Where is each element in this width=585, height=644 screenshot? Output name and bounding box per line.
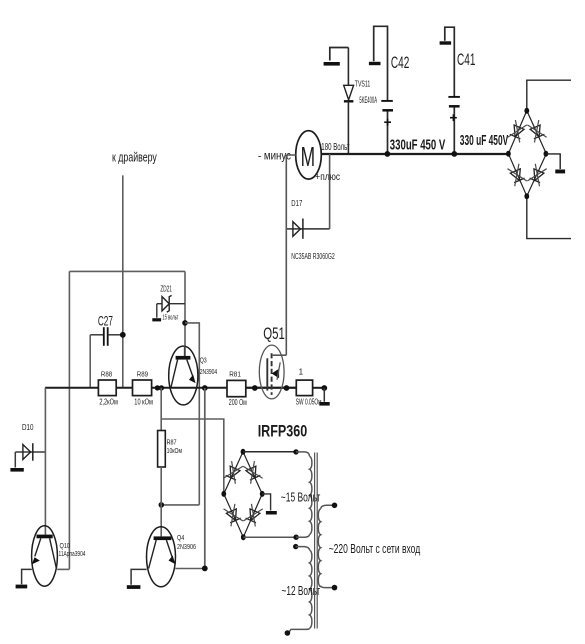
node bridge1 right xyxy=(260,491,265,497)
node primary top xyxy=(332,503,338,509)
resistor R88 xyxy=(98,369,117,406)
ground (D10) xyxy=(10,452,23,472)
node R81-gate xyxy=(252,385,258,391)
wire plus drop xyxy=(329,154,331,229)
ground (zener) xyxy=(152,304,161,322)
node winding1 top xyxy=(293,449,298,454)
wire bridge1 bottom to transformer xyxy=(243,536,296,538)
node bridge2 bottom xyxy=(524,193,529,199)
svg-text:330 uF 450V: 330 uF 450V xyxy=(460,133,509,149)
node Q4-collector xyxy=(202,566,208,572)
svg-text:~220 Вольт с сети вход: ~220 Вольт с сети вход xyxy=(329,542,421,556)
ground (Q4) xyxy=(127,569,147,589)
svg-text:C42: C42 xyxy=(391,53,409,72)
svg-text:C41: C41 xyxy=(457,50,475,69)
bridge1 frame xyxy=(224,452,262,537)
ground (Q10) xyxy=(16,569,32,588)
wire bridge1 top to transformer xyxy=(243,451,296,453)
node C27-driver xyxy=(120,332,126,338)
svg-text:Q3: Q3 xyxy=(200,355,207,364)
node C42-bus xyxy=(385,151,391,157)
wire bridge2 bottom lead xyxy=(527,196,571,238)
resistor R89 xyxy=(133,369,153,406)
wire motor left xyxy=(286,154,296,156)
wire D17 horizontal xyxy=(286,228,329,230)
node bridge2 top xyxy=(524,108,529,114)
mosfet Q51 xyxy=(259,325,285,399)
svg-text:R81: R81 xyxy=(229,369,241,378)
wire zener-base vertical xyxy=(184,271,186,356)
wire SW right xyxy=(313,387,325,389)
bridge2 diode BL xyxy=(507,164,527,187)
wire zener L to down-right xyxy=(185,323,199,505)
node main-R89b xyxy=(159,385,164,390)
wire C27 left leg xyxy=(89,335,91,388)
transformer winding2 (12V) xyxy=(289,547,312,632)
bridge2 diode TR xyxy=(527,120,547,143)
wire Q4 collector to node xyxy=(175,568,204,570)
svg-text:+плюс: +плюс xyxy=(315,171,340,183)
node main-Q3e xyxy=(202,385,208,391)
node winding1 bottom xyxy=(293,535,298,540)
resistor R87 xyxy=(158,388,183,505)
svg-text:к драйверу: к драйверу xyxy=(112,151,157,165)
wire TVS bottom to bus xyxy=(347,101,349,154)
svg-text:11Арпа3904: 11Арпа3904 xyxy=(59,549,86,558)
transistor Q4 xyxy=(147,527,197,587)
node SW-gnd xyxy=(321,385,327,391)
bridge1 diode TL xyxy=(223,461,243,484)
wire Q10 base vertical xyxy=(44,388,46,535)
wire main horizontal xyxy=(45,387,296,389)
svg-text:2N3904: 2N3904 xyxy=(200,367,218,376)
transformer winding1 (15V) xyxy=(296,452,312,537)
svg-text:IRFP360: IRFP360 xyxy=(258,423,308,441)
svg-text:R87: R87 xyxy=(167,437,177,446)
zener ZD21 xyxy=(157,285,185,313)
svg-text:1: 1 xyxy=(299,367,304,376)
svg-text:NC35AB R3060G2: NC35AB R3060G2 xyxy=(291,251,335,261)
node bridge2 right xyxy=(544,151,549,157)
svg-text:10кОм: 10кОм xyxy=(167,446,183,455)
bridge1 diode BL xyxy=(223,504,243,527)
node winding2 bottom xyxy=(285,630,291,636)
ground (left of TVS) xyxy=(324,48,349,66)
wire DC bus xyxy=(321,153,508,155)
wire upper-left horizontal xyxy=(69,270,185,272)
wire driver vertical xyxy=(122,175,124,387)
capacitor C41 xyxy=(448,50,475,154)
svg-text:2,2кОм: 2,2кОм xyxy=(99,397,117,406)
node gate-source xyxy=(284,385,290,391)
bridge2 diode TL xyxy=(508,120,528,143)
node bridge1 bottom xyxy=(241,534,246,540)
node bridge2 left xyxy=(506,151,511,157)
wire bridge2 top lead xyxy=(527,80,571,110)
svg-text:R88: R88 xyxy=(101,369,112,378)
wire Q4 collector vertical xyxy=(204,388,206,568)
svg-text:D10: D10 xyxy=(22,422,34,432)
diode D10 xyxy=(15,422,45,461)
capacitor C27 xyxy=(90,313,123,346)
node winding2 top xyxy=(293,544,298,549)
bridge2 frame xyxy=(508,111,546,197)
svg-text:ZD21: ZD21 xyxy=(160,285,172,294)
wire left tall vertical xyxy=(68,271,70,569)
ground (C41 top) xyxy=(440,27,455,96)
svg-text:330uF 450 V: 330uF 450 V xyxy=(390,137,446,153)
node zener junction xyxy=(182,320,188,326)
svg-text:200 Ом: 200 Ом xyxy=(229,398,247,407)
resistor R81 xyxy=(227,369,247,407)
svg-text:TVS11: TVS11 xyxy=(355,78,371,88)
wire Q4 base vertical xyxy=(160,505,162,537)
diode D17 xyxy=(291,198,303,239)
wire Q10 collector link xyxy=(57,568,69,570)
svg-text:Q51: Q51 xyxy=(263,325,285,343)
node C41-bus xyxy=(451,151,457,157)
svg-text:180 Вольт: 180 Вольт xyxy=(321,141,349,153)
transformer primary (220V) xyxy=(318,505,334,587)
wire minus drop (to Q51 drain) xyxy=(285,155,287,355)
svg-text:R89: R89 xyxy=(137,369,148,378)
wire Q51 drain link xyxy=(273,354,287,356)
transformer core xyxy=(315,453,318,629)
capacitor C42 xyxy=(381,53,409,154)
svg-text:10 кОм: 10 кОм xyxy=(134,398,153,407)
node R87 bottom xyxy=(159,502,165,508)
ground (bridge1 right) xyxy=(262,494,277,515)
node bridge1 left xyxy=(221,491,226,497)
wire to bridge1 left xyxy=(161,419,224,493)
bridge1 diode TR xyxy=(243,461,263,484)
transistor Q3 xyxy=(169,346,218,405)
transistor Q10 xyxy=(32,526,86,586)
bridge1 diode BR xyxy=(243,504,263,527)
wire R81 to gate xyxy=(246,387,296,389)
node primary bottom xyxy=(332,585,338,591)
svg-text:5KE400A: 5KE400A xyxy=(359,95,377,105)
svg-text:C27: C27 xyxy=(98,313,113,329)
bridge2 diode BR xyxy=(527,164,547,187)
node bridge1 top xyxy=(241,449,246,455)
ground (bridge2 right) xyxy=(546,154,565,174)
svg-text:M: M xyxy=(301,141,315,172)
resistor SW (shunt) xyxy=(296,367,322,406)
svg-text:2N3906: 2N3906 xyxy=(177,542,196,551)
svg-text:15 вольт: 15 вольт xyxy=(162,312,178,321)
motor M xyxy=(296,131,322,179)
ground (SW) xyxy=(319,388,329,406)
wire R87 bottom link xyxy=(161,504,199,506)
svg-text:D17: D17 xyxy=(291,198,302,208)
wire TVS top xyxy=(347,48,349,86)
svg-text:SW 0.05Ом: SW 0.05Ом xyxy=(296,397,322,406)
TVS diode TVS11 5KE400A xyxy=(344,78,377,105)
svg-text:Q4: Q4 xyxy=(177,533,184,542)
node main-R89a xyxy=(155,385,160,390)
ground (C42 top) xyxy=(369,26,388,100)
